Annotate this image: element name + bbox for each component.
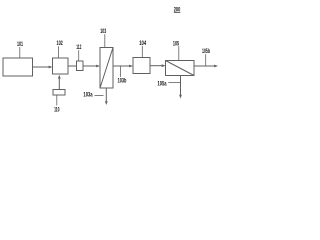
leader 112 [78,50,80,61]
svg-text:103a: 103a [83,93,93,99]
wire 102 to 103 [68,65,100,68]
drain arrow below 103 [105,88,108,105]
leader 102 [58,46,60,58]
svg-text:103b: 103b [118,79,127,85]
leader 105b [205,54,207,65]
block 112 [77,61,84,71]
wire 101 to 102 [33,66,53,69]
svg-text:104: 104 [139,41,146,47]
leader 103a [95,95,104,97]
wire 104 to 105 [150,64,166,67]
figure label 200 [174,7,181,13]
block 101 [3,58,33,76]
leader 105a [168,81,180,83]
leader 104 [141,46,143,58]
leader 110 [56,95,58,106]
wire 110 to 102 (up arrow) [58,75,61,90]
drain arrow below 105 [179,76,182,99]
block 102 [53,58,69,74]
block 110 [53,90,65,96]
leader 105 [178,46,180,60]
leader 103 [104,34,106,47]
svg-text:110: 110 [54,107,60,113]
block 105 (attenuator with diagonal) [166,61,195,76]
block 104 [133,58,150,74]
svg-text:103: 103 [100,29,106,35]
svg-text:105a: 105a [158,81,167,87]
wire 103 to 104 [113,65,133,68]
output wire 105b [194,65,218,68]
block 103 (modulator with diagonal) [100,48,113,89]
leader 101 [19,47,21,58]
svg-text:102: 102 [57,41,64,47]
node tick 103b [119,66,121,77]
